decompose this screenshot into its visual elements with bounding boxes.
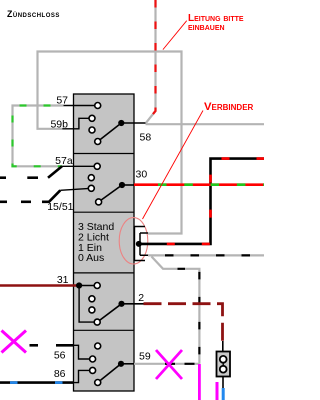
annotation Leitung bitte einbauen — [163, 13, 244, 50]
X mark on 56 wire — [2, 331, 27, 353]
position legend text — [78, 221, 114, 264]
wire gray branch down to 59 — [152, 257, 200, 364]
terminal stub 2 — [122, 303, 144, 305]
wire 57a black dashed — [0, 166, 62, 177]
contact top section 4 — [95, 343, 101, 349]
svg-text:30: 30 — [136, 169, 148, 181]
wire 58 gray to right edge — [146, 123, 265, 125]
switch lever section 4 — [98, 364, 121, 383]
junction dot 2 — [118, 301, 124, 307]
wire 86 black with blue dashes — [0, 381, 73, 384]
contact lever section 2 — [96, 199, 102, 205]
annotation ellipse around connector — [119, 218, 148, 264]
junction dot 31 — [76, 282, 82, 288]
contact 56 — [90, 356, 96, 362]
contact lever section 4 — [95, 380, 101, 386]
contact spare section 2 — [88, 175, 94, 181]
svg-text:59: 59 — [139, 351, 151, 363]
contact 57 — [95, 103, 101, 109]
fuse connector bottom right — [217, 341, 231, 389]
terminal stub 30 — [122, 184, 134, 186]
connector symbol (Verbinder) — [134, 227, 148, 261]
wire 15/51 black dashed — [0, 190, 60, 202]
svg-text:56: 56 — [54, 350, 66, 362]
svg-text:31: 31 — [57, 274, 69, 286]
wire 31 dark red — [0, 284, 79, 287]
wire magenta vertical below 59 — [198, 364, 201, 400]
contact spare a section 3 — [89, 296, 95, 302]
svg-text:einbauen: einbauen — [188, 22, 225, 33]
terminal stub 58 — [121, 122, 145, 124]
contact top section 3 — [94, 283, 100, 289]
svg-text:57: 57 — [56, 95, 68, 107]
contact 57a — [94, 163, 100, 169]
contact spare b section 3 — [89, 307, 95, 313]
contact 15/51 — [88, 185, 94, 191]
terminal stub 15/51 — [60, 188, 91, 190]
wire gray connector bottom to right edge — [148, 254, 264, 256]
svg-text:Zündschloss: Zündschloss — [7, 9, 60, 19]
annotation Verbinder — [143, 101, 254, 219]
svg-text:Verbinder: Verbinder — [204, 101, 254, 113]
contact spare section 1 — [89, 127, 95, 133]
wire magenta bottom — [216, 382, 219, 400]
terminal stub 86 with bracket — [73, 370, 92, 382]
switch lever section 3 — [97, 304, 121, 322]
terminal stub 56 with bracket — [73, 345, 92, 359]
terminal stub 57 — [64, 105, 98, 107]
wire gray with red dashes (Leitung bitte einbauen) — [146, 0, 156, 123]
terminal stub 59b with bracket — [62, 118, 92, 129]
svg-text:15/51: 15/51 — [47, 201, 73, 213]
svg-text:86: 86 — [54, 368, 66, 380]
switch lever section 1 — [98, 123, 122, 142]
wire 56 black dashed — [30, 344, 74, 347]
junction dot 58 — [118, 120, 124, 126]
contact lever section 1 — [95, 139, 101, 145]
contact lever section 3 — [94, 319, 100, 325]
svg-text:58: 58 — [140, 132, 152, 144]
wire 2 maroon dashed — [144, 304, 223, 341]
terminal stub 57a — [62, 165, 97, 167]
svg-text:57a: 57a — [55, 155, 73, 167]
wire 30 red-green to right edge — [134, 183, 264, 186]
X mark on 59 wire — [156, 350, 182, 379]
contact 59b — [89, 115, 95, 121]
junction dot 59 — [118, 361, 124, 367]
switch body — [74, 94, 135, 391]
wire gray loop 59b to connector — [38, 52, 182, 234]
svg-text:2: 2 — [138, 292, 144, 304]
wire black-red from connector to right edge — [139, 159, 264, 244]
svg-text:0 Aus: 0 Aus — [78, 252, 104, 264]
wire gray-green 57 to 57a — [13, 106, 64, 167]
wire 59 gray with black dashes — [134, 363, 199, 365]
switch lever section 2 — [99, 185, 122, 202]
junction dot 30 — [119, 182, 125, 188]
terminal stub 59 — [121, 363, 134, 365]
internal link 31 — [79, 286, 97, 323]
contact 86 — [90, 367, 96, 373]
wire blue bottom — [222, 388, 225, 400]
svg-text:59b: 59b — [50, 119, 68, 131]
